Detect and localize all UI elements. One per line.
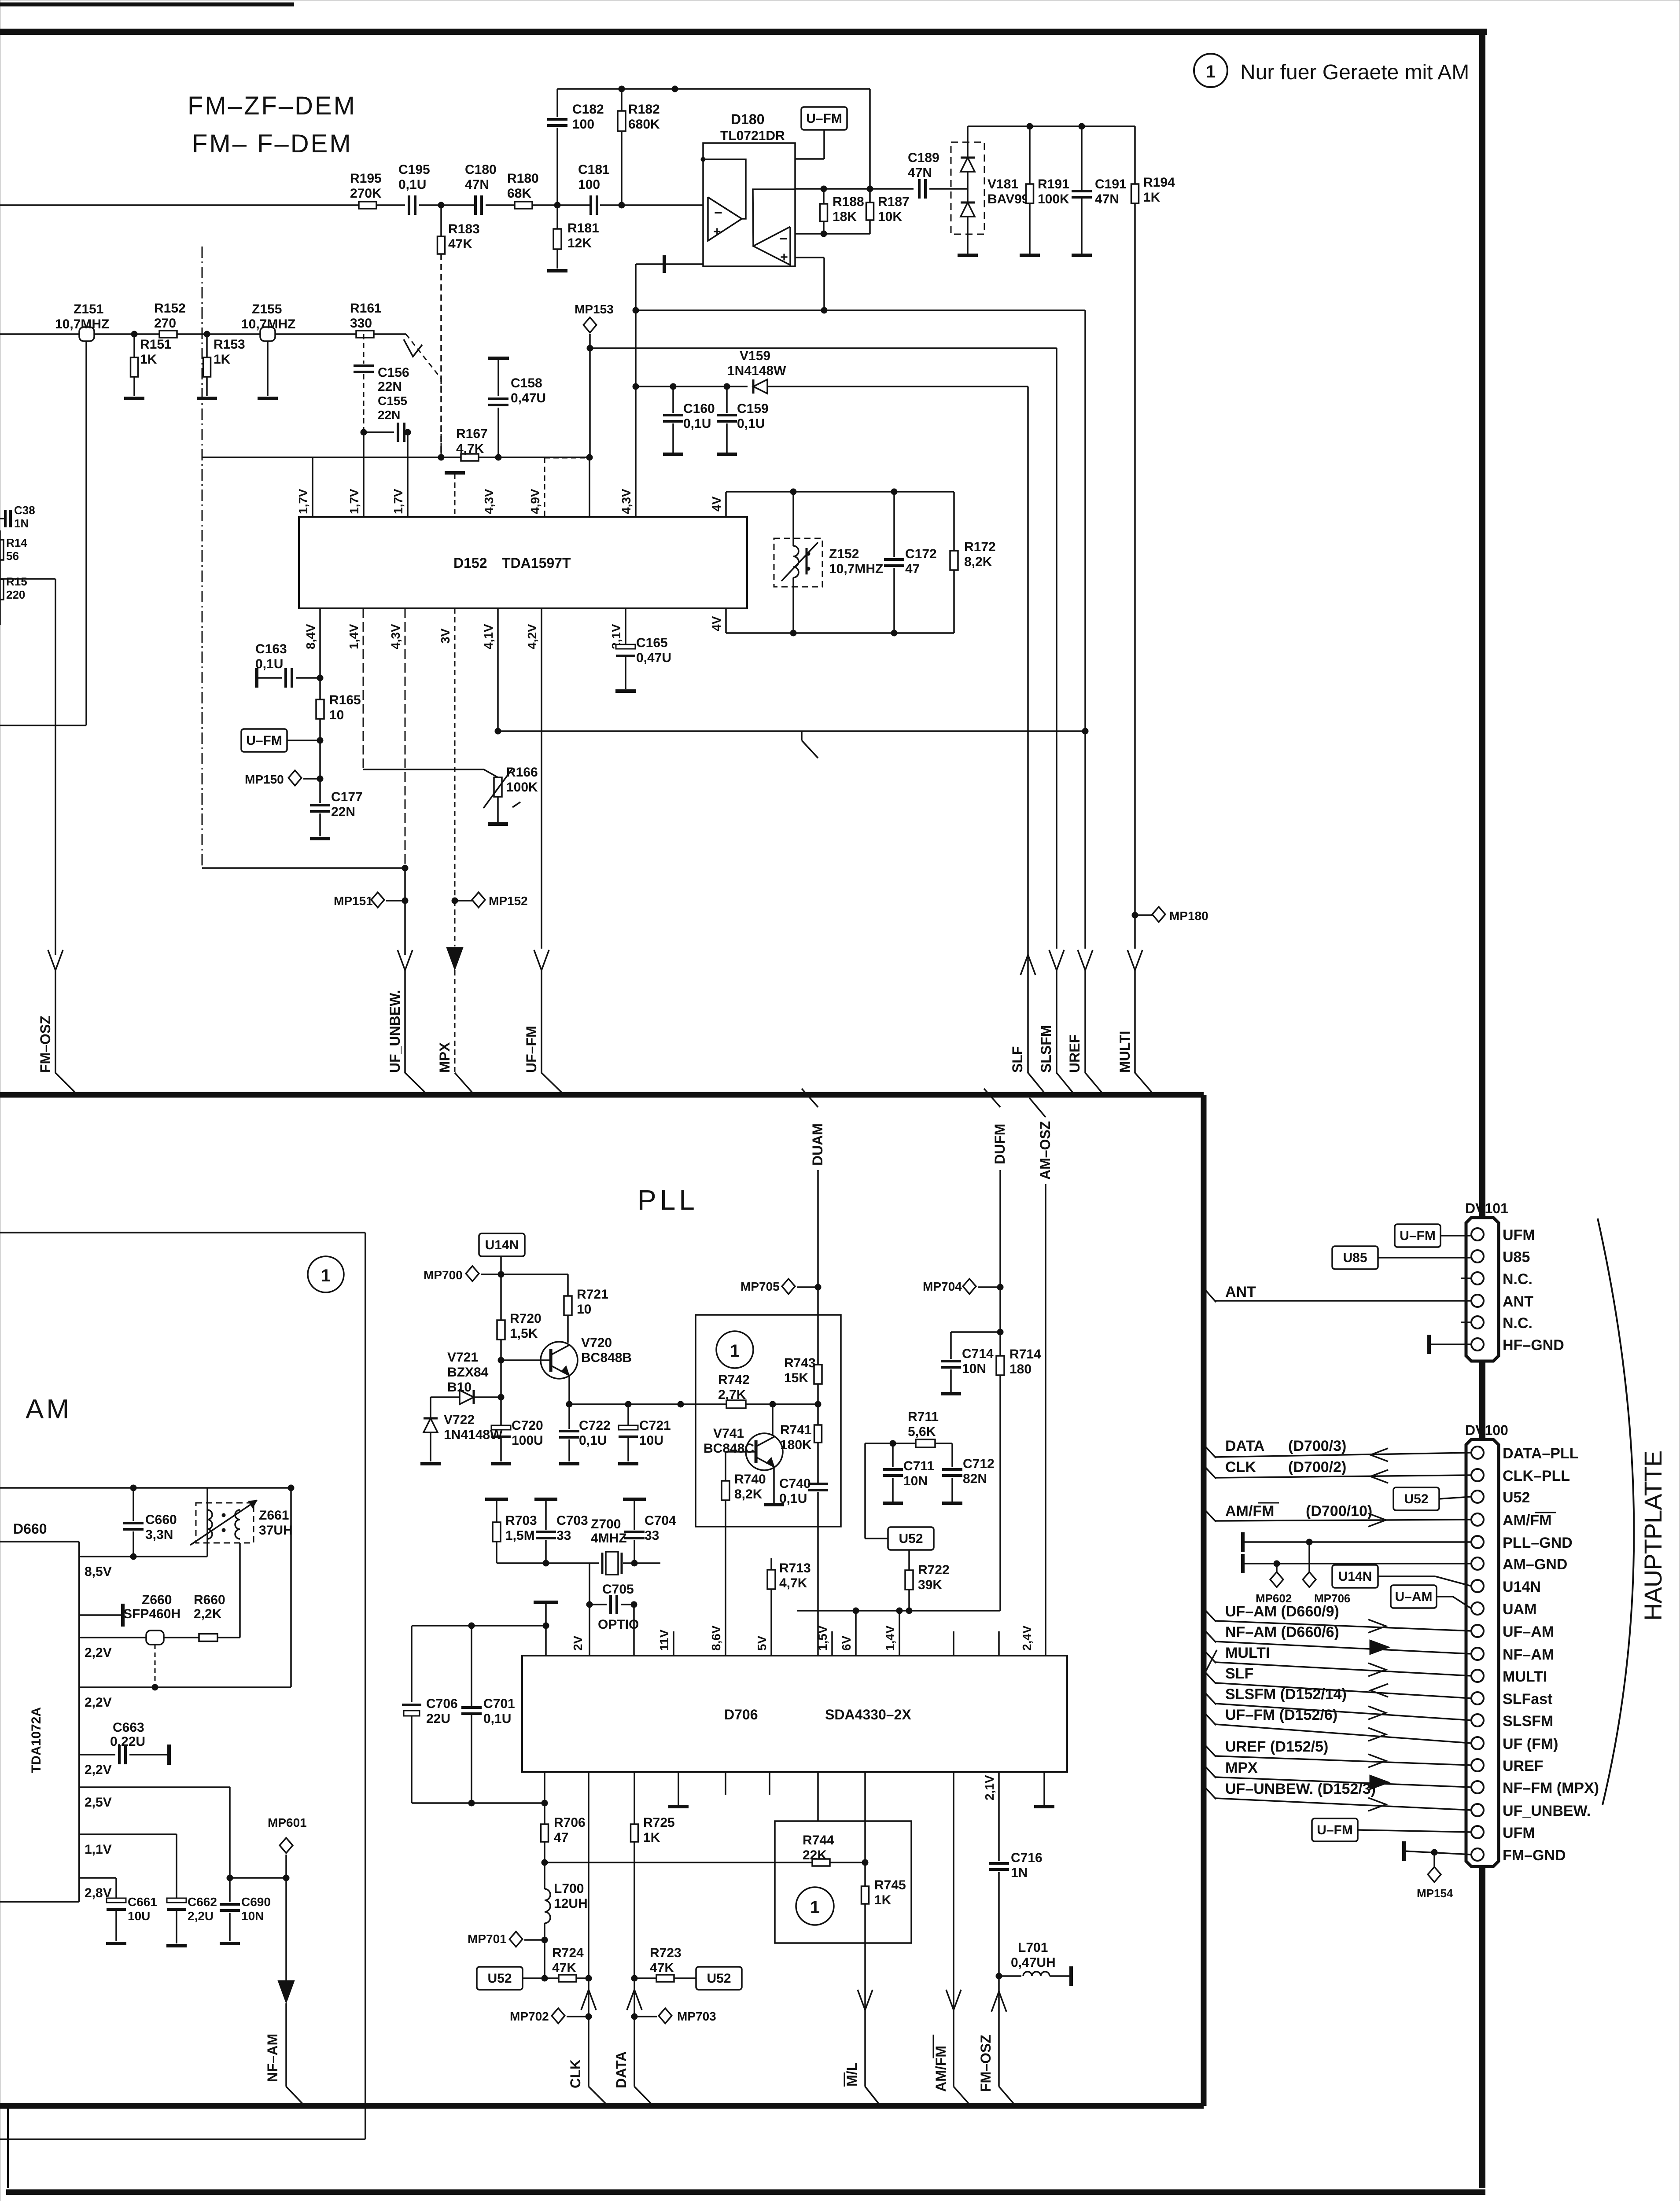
wire V741 emitter — [773, 1468, 775, 1503]
svg-text:270: 270 — [154, 316, 176, 331]
crystal Z700 4MHZ — [601, 1553, 604, 1574]
svg-text:C740: C740 — [779, 1476, 811, 1491]
wire after R161 — [374, 333, 406, 335]
ground C714 — [941, 1392, 961, 1395]
svg-text:UF–AM: UF–AM — [1503, 1623, 1554, 1640]
ground stub op-amp — [663, 255, 666, 273]
svg-text:Z661: Z661 — [259, 1508, 289, 1523]
svg-text:HF–GND: HF–GND — [1503, 1337, 1564, 1354]
svg-text:M/L: M/L — [844, 2062, 860, 2087]
pin D706 top 6V — [855, 1611, 857, 1656]
wire R183 to node — [440, 254, 442, 457]
wire DUFM row — [797, 1610, 1000, 1612]
pin D152 bottom 3V (MPX) — [454, 608, 456, 901]
svg-text:DATA: DATA — [613, 2051, 629, 2088]
svg-text:CLK: CLK — [567, 2059, 583, 2088]
svg-text:DV100: DV100 — [1465, 1422, 1508, 1438]
svg-text:R721: R721 — [577, 1287, 608, 1302]
bus entry MPX — [455, 1073, 472, 1092]
wire U-FM stub — [823, 130, 825, 159]
svg-text:22N: 22N — [378, 408, 400, 422]
svg-text:0,1U: 0,1U — [398, 177, 426, 192]
svg-text:C191: C191 — [1095, 177, 1127, 191]
svg-text:180: 180 — [1009, 1362, 1032, 1377]
svg-text:U52: U52 — [487, 1971, 512, 1986]
svg-text:8,5V: 8,5V — [85, 1564, 112, 1579]
pin DV101 6 HF&#8211;GND — [1471, 1338, 1484, 1351]
arrow MULTI down — [1127, 950, 1142, 970]
wire — [767, 386, 1028, 387]
svg-text:22N: 22N — [331, 805, 355, 819]
pin DV100 4 AM/FM — [1471, 1513, 1484, 1526]
svg-text:1K: 1K — [140, 352, 157, 367]
svg-text:220: 220 — [6, 588, 25, 601]
svg-text:BC848C: BC848C — [704, 1441, 754, 1456]
svg-text:C662: C662 — [188, 1895, 217, 1909]
svg-text:AM: AM — [26, 1394, 72, 1424]
svg-text:R167: R167 — [456, 427, 488, 441]
wire 4V junctions — [790, 630, 796, 636]
svg-text:C703: C703 — [556, 1513, 588, 1528]
bus line upper (PLL box top) — [0, 1092, 1204, 1098]
svg-text:NF–AM: NF–AM — [1503, 1646, 1554, 1663]
pin DV101 2 U85 — [1471, 1250, 1484, 1262]
wire V159 line — [636, 386, 748, 387]
svg-text:PLL: PLL — [637, 1184, 698, 1216]
resistor R742 — [726, 1400, 746, 1408]
svg-text:10N: 10N — [903, 1474, 928, 1488]
svg-text:ANT: ANT — [1503, 1293, 1533, 1310]
resistor R183 — [440, 205, 442, 236]
svg-text:C160: C160 — [683, 401, 715, 416]
pin D152 bottom 1,4V — [363, 608, 364, 769]
svg-text:C155: C155 — [378, 394, 407, 408]
resistor R165 — [316, 699, 324, 719]
option circle 1 AM — [308, 1256, 344, 1292]
svg-text:R166: R166 — [506, 765, 538, 780]
AM box right — [365, 1233, 366, 2139]
ground C711 — [883, 1502, 903, 1505]
svg-text:10: 10 — [577, 1302, 591, 1317]
resistor R713 — [770, 1558, 772, 1570]
transistor V741 BC848C — [746, 1433, 783, 1470]
wire edge stub — [0, 530, 1, 625]
wire ANT — [1215, 1300, 1471, 1302]
svg-text:33: 33 — [645, 1528, 659, 1543]
svg-text:+: + — [780, 250, 788, 265]
capacitor C705 OPTIO — [589, 1604, 607, 1605]
svg-text:1K: 1K — [1143, 190, 1161, 205]
svg-text:1: 1 — [1206, 62, 1216, 81]
wire op-amp plus input — [636, 309, 1085, 311]
svg-text:U52: U52 — [1404, 1492, 1428, 1506]
resistor R153 — [206, 334, 208, 357]
resistor R725 — [631, 1824, 638, 1842]
svg-text:MP151: MP151 — [334, 894, 373, 908]
svg-text:2,1V: 2,1V — [983, 1775, 996, 1800]
svg-text:C158: C158 — [511, 376, 542, 390]
svg-text:U–FM: U–FM — [246, 733, 282, 748]
wire DATA lower — [627, 1990, 642, 2010]
svg-text:R153: R153 — [214, 337, 245, 352]
svg-text:Z155: Z155 — [252, 302, 282, 317]
svg-text:3,3N: 3,3N — [145, 1527, 173, 1542]
terminal FM-GND — [1402, 1841, 1406, 1861]
capacitor C181 — [589, 195, 592, 215]
ground C191 — [1072, 254, 1092, 257]
svg-text:R187: R187 — [878, 195, 910, 209]
pin D706 bottom 2,1V — [998, 1772, 1000, 1861]
svg-text:C177: C177 — [331, 790, 363, 804]
svg-text:4,3V: 4,3V — [482, 489, 496, 514]
capacitor C704 — [624, 1531, 645, 1533]
svg-text:MP601: MP601 — [268, 1816, 307, 1829]
svg-text:47N: 47N — [908, 166, 932, 180]
svg-text:47K: 47K — [552, 1961, 576, 1975]
svg-text:AM/FM: AM/FM — [1225, 1503, 1274, 1520]
svg-text:0,1U: 0,1U — [779, 1491, 807, 1506]
svg-text:4,9V: 4,9V — [528, 489, 542, 514]
svg-text:FM–ZF–DEM: FM–ZF–DEM — [188, 92, 357, 120]
svg-text:UF (FM): UF (FM) — [1503, 1736, 1558, 1752]
pin D152 bottom 8,4V — [319, 608, 321, 678]
pin DV100 1 DATA-PLL — [1471, 1446, 1484, 1459]
svg-text:C705: C705 — [602, 1582, 634, 1597]
ground C661 — [106, 1942, 126, 1945]
svg-text:100: 100 — [572, 117, 594, 132]
pin D706 bottom M/L — [864, 1772, 866, 1862]
pin D706 top 11V — [673, 1631, 674, 1656]
wire R711 to U52 — [865, 1443, 893, 1444]
pin D706 bottom gnd2 — [1043, 1772, 1045, 1805]
svg-text:8,2K: 8,2K — [964, 555, 992, 569]
pin D706 bottom gnd — [678, 1772, 679, 1805]
svg-text:B10: B10 — [447, 1380, 472, 1395]
connector DV101 body — [1466, 1218, 1499, 1361]
svg-text:C704: C704 — [645, 1513, 676, 1528]
svg-text:DUFM: DUFM — [992, 1124, 1008, 1164]
resistor R191 — [1029, 126, 1031, 184]
svg-text:SLF: SLF — [1225, 1665, 1253, 1682]
svg-text:1N: 1N — [1011, 1866, 1028, 1880]
svg-text:22U: 22U — [426, 1711, 450, 1726]
wire Z660 tap — [155, 1645, 156, 1687]
svg-text:R188: R188 — [833, 195, 864, 209]
pin D706 AM/FM — [953, 1772, 954, 1991]
capacitor C38 (edge) — [0, 518, 4, 519]
IC D152 TDA1597T body — [299, 517, 747, 608]
svg-text:0,47U: 0,47U — [636, 651, 671, 665]
variable inductor Z661 dashed box — [196, 1503, 254, 1543]
wire shield drop — [202, 247, 203, 868]
svg-text:R151: R151 — [140, 337, 172, 352]
wire N.C. stub1 — [1461, 1277, 1471, 1279]
ground C720 — [491, 1462, 511, 1465]
pin D706 top stubs — [953, 1631, 954, 1656]
diode V181a — [967, 126, 969, 158]
capacitor C159 — [726, 386, 728, 413]
svg-text:U52: U52 — [899, 1531, 923, 1546]
svg-text:5,6K: 5,6K — [908, 1424, 936, 1439]
resistor R721 — [564, 1296, 572, 1315]
transistor V720 BC848B — [541, 1342, 578, 1379]
svg-text:R703: R703 — [505, 1513, 537, 1528]
pin DV100 19 FM-GND — [1471, 1848, 1484, 1861]
wire bottom rail — [412, 1802, 545, 1804]
svg-text:33: 33 — [556, 1528, 571, 1543]
svg-text:NF–AM: NF–AM — [265, 2034, 280, 2082]
frame border right upper — [1479, 32, 1485, 1218]
svg-text:C159: C159 — [737, 401, 769, 416]
svg-text:1K: 1K — [643, 1830, 660, 1845]
svg-text:UREF (D152/5): UREF (D152/5) — [1225, 1738, 1328, 1755]
resistor R194 — [1131, 184, 1139, 203]
svg-text:1,5K: 1,5K — [510, 1326, 538, 1341]
wire to V181 — [929, 188, 968, 190]
wire Z661 left — [206, 1488, 208, 1557]
svg-text:U–FM: U–FM — [1400, 1229, 1436, 1243]
pin DV100 14 UF (FM) — [1471, 1737, 1484, 1749]
wire 2,2V row2 — [79, 1686, 291, 1688]
svg-text:SLSFM: SLSFM — [1038, 1025, 1054, 1073]
bus entry DUFM — [984, 1089, 1000, 1107]
pin DV100 8 UAM — [1471, 1602, 1484, 1615]
ground stub rail — [534, 1601, 558, 1604]
svg-text:82N: 82N — [963, 1472, 987, 1486]
ground V181 — [958, 254, 978, 257]
wire U14N down — [500, 1256, 502, 1320]
capacitor C711 — [892, 1443, 894, 1467]
svg-text:U85: U85 — [1503, 1249, 1530, 1266]
wire SLSFM vertical — [1056, 348, 1057, 949]
arrow UF_UNBEW down — [398, 950, 413, 970]
wire rail above V181 — [968, 125, 1135, 127]
svg-text:330: 330 — [350, 316, 372, 331]
resistor R182 — [621, 132, 623, 205]
svg-text:R744: R744 — [803, 1833, 834, 1848]
wire MPX vertical — [454, 901, 456, 946]
svg-text:C711: C711 — [903, 1459, 934, 1473]
svg-text:TDA1072A: TDA1072A — [29, 1707, 44, 1773]
svg-text:4,1V: 4,1V — [482, 624, 495, 649]
svg-text:C195: C195 — [398, 162, 430, 177]
svg-text:56: 56 — [6, 549, 19, 563]
svg-text:MP702: MP702 — [510, 2010, 549, 2023]
svg-text:15K: 15K — [784, 1371, 808, 1385]
svg-text:47N: 47N — [1095, 192, 1119, 206]
svg-text:R723: R723 — [650, 1946, 682, 1960]
op-amp B triangle (mirrored) — [753, 227, 790, 265]
svg-text:2,7K: 2,7K — [718, 1388, 746, 1402]
svg-text:5V: 5V — [755, 1635, 769, 1651]
svg-text:47K: 47K — [448, 237, 472, 251]
wire NF-AM row — [1215, 1642, 1471, 1654]
svg-text:1,4V: 1,4V — [883, 1625, 897, 1651]
svg-text:R741: R741 — [780, 1423, 812, 1437]
svg-text:680K: 680K — [628, 117, 660, 132]
svg-text:39K: 39K — [918, 1578, 942, 1592]
svg-text:2,4V: 2,4V — [1020, 1625, 1034, 1651]
wire UF-AM row — [1215, 1621, 1471, 1631]
pin DV100 10 NF-AM — [1471, 1648, 1484, 1660]
wire top rail — [557, 88, 870, 90]
ground R181 — [547, 269, 567, 272]
wire 2,2V row1 — [79, 1637, 240, 1638]
svg-text:47: 47 — [554, 1830, 568, 1845]
label box U-FM top — [801, 107, 847, 130]
note circle 1 — [1194, 54, 1227, 87]
capacitor C189 — [918, 179, 921, 199]
svg-text:SFP460H: SFP460H — [123, 1607, 181, 1621]
svg-text:1K: 1K — [874, 1893, 892, 1907]
pin DV100 11 MULTI — [1471, 1670, 1484, 1682]
svg-text:U–FM: U–FM — [1317, 1823, 1353, 1837]
svg-text:AM–OSZ: AM–OSZ — [1037, 1121, 1053, 1180]
wire to D706 — [633, 1605, 635, 1656]
svg-text:V181: V181 — [987, 177, 1018, 191]
svg-text:C712: C712 — [963, 1457, 995, 1471]
wire — [486, 204, 515, 206]
wire crystal row — [497, 1562, 599, 1564]
op-amp U D180 block — [703, 143, 795, 266]
svg-text:R706: R706 — [554, 1815, 586, 1830]
svg-text:4,3V: 4,3V — [389, 624, 402, 649]
svg-text:1,7V: 1,7V — [296, 489, 310, 514]
pin DV101 1 UFM — [1471, 1228, 1484, 1240]
svg-text:10: 10 — [329, 708, 344, 722]
capacitor C155 — [364, 431, 394, 433]
svg-text:UFM: UFM — [1503, 1825, 1535, 1841]
resistor R706 — [541, 1824, 549, 1842]
connector DV100 body — [1466, 1439, 1499, 1866]
wire — [376, 204, 405, 206]
svg-text:270K: 270K — [350, 186, 382, 201]
svg-text:R180: R180 — [507, 171, 539, 186]
ground C159 — [717, 453, 737, 456]
ground R151 — [124, 397, 144, 400]
resistor R180 — [515, 202, 532, 209]
svg-text:MP152: MP152 — [489, 894, 528, 908]
wire DUFM down — [999, 1287, 1001, 1356]
svg-text:MP704: MP704 — [923, 1280, 962, 1293]
resistor R741 — [814, 1425, 822, 1443]
wire DUFM vertical — [999, 1170, 1001, 1287]
inductor L701 — [999, 1975, 1021, 1977]
arrow to R183 line — [404, 339, 422, 357]
wire to R721 — [501, 1273, 568, 1275]
wire — [407, 432, 409, 517]
wire DUAM through box — [817, 1287, 819, 1365]
wire N.C. stub2 — [1461, 1321, 1471, 1323]
svg-text:10,7MHZ: 10,7MHZ — [241, 317, 295, 331]
AM box top — [0, 1232, 365, 1233]
wire NF-AM — [285, 1878, 287, 1988]
wire FM input line — [0, 204, 359, 206]
svg-text:U14N: U14N — [1503, 1579, 1541, 1595]
svg-text:R711: R711 — [908, 1410, 939, 1424]
svg-text:N.C.: N.C. — [1503, 1271, 1533, 1288]
svg-text:BZX84: BZX84 — [447, 1365, 489, 1380]
IC D660 body — [0, 1541, 79, 1542]
label box U52 mid — [888, 1527, 934, 1550]
resistor R724 — [545, 1977, 559, 1979]
svg-text:10N: 10N — [962, 1362, 986, 1376]
wire AM-OSZ vertical — [1045, 1184, 1046, 1656]
svg-text:MULTI: MULTI — [1503, 1668, 1547, 1685]
svg-text:47: 47 — [905, 562, 920, 576]
wire supply rail — [412, 1625, 546, 1627]
svg-text:U52: U52 — [1503, 1489, 1530, 1506]
wire 2,2V row3 C663 — [79, 1754, 115, 1756]
svg-text:U52: U52 — [707, 1971, 731, 1986]
svg-text:R161: R161 — [350, 301, 382, 316]
wire 1,1V row — [79, 1833, 177, 1835]
svg-text:V720: V720 — [581, 1336, 612, 1350]
diode V181b — [967, 172, 969, 202]
svg-text:4V: 4V — [710, 616, 723, 631]
svg-text:C172: C172 — [905, 547, 937, 561]
label box U-FM at D152 — [241, 729, 287, 752]
capacitor C177 — [319, 740, 321, 803]
svg-text:+: + — [713, 225, 721, 239]
op-amp B feedback — [753, 189, 795, 246]
ground C165 — [615, 689, 636, 693]
capacitor C706 22U — [411, 1626, 413, 1702]
svg-text:Z660: Z660 — [142, 1593, 172, 1607]
wire AM top row — [0, 1487, 291, 1489]
resistor R195 — [359, 202, 376, 209]
svg-text:1,5M: 1,5M — [505, 1528, 535, 1543]
svg-text:0,1U: 0,1U — [483, 1711, 511, 1726]
wire FM-OSZ vertical — [55, 579, 56, 955]
wire V741 base — [726, 1451, 756, 1453]
svg-text:2,2V: 2,2V — [85, 1763, 112, 1777]
svg-text:R195: R195 — [350, 171, 382, 186]
capacitor C716 — [989, 1862, 1009, 1865]
capacitor C158 — [488, 357, 509, 360]
svg-text:R743: R743 — [784, 1356, 816, 1370]
svg-text:10N: 10N — [241, 1909, 264, 1923]
wire 4.9V dashed — [545, 457, 589, 459]
svg-text:FM–OSZ: FM–OSZ — [978, 2035, 994, 2092]
resistor R187 — [869, 189, 871, 202]
svg-text:4,2V: 4,2V — [525, 624, 539, 649]
svg-text:R15: R15 — [6, 575, 27, 588]
wire AM-GND row — [1241, 1554, 1245, 1573]
pin D706 bottom stub5 — [725, 1772, 726, 1795]
wire left stub — [635, 264, 637, 517]
svg-text:DATA: DATA — [1225, 1438, 1264, 1454]
svg-text:C701: C701 — [483, 1697, 515, 1711]
wire SLF row — [1215, 1683, 1471, 1698]
wire V720 emitter — [568, 1376, 570, 1404]
svg-text:1N4148W: 1N4148W — [727, 364, 786, 378]
svg-text:47N: 47N — [465, 177, 489, 192]
hauptplatte brace — [1598, 1218, 1634, 1805]
ground C690 — [220, 1942, 240, 1945]
svg-text:NF–AM (D660/6): NF–AM (D660/6) — [1225, 1624, 1339, 1641]
frame border right lower — [1479, 1866, 1485, 2188]
pin DV100 15 UREF — [1471, 1759, 1484, 1771]
svg-text:V721: V721 — [447, 1350, 478, 1365]
frame border bottom — [6, 2190, 1485, 2195]
resistor R188 — [823, 189, 825, 204]
capacitor C703 — [536, 1531, 556, 1533]
svg-text:4MHZ: 4MHZ — [591, 1531, 627, 1546]
svg-text:C180: C180 — [465, 162, 497, 177]
svg-text:−: − — [779, 231, 788, 247]
resistor R152 — [159, 331, 177, 338]
